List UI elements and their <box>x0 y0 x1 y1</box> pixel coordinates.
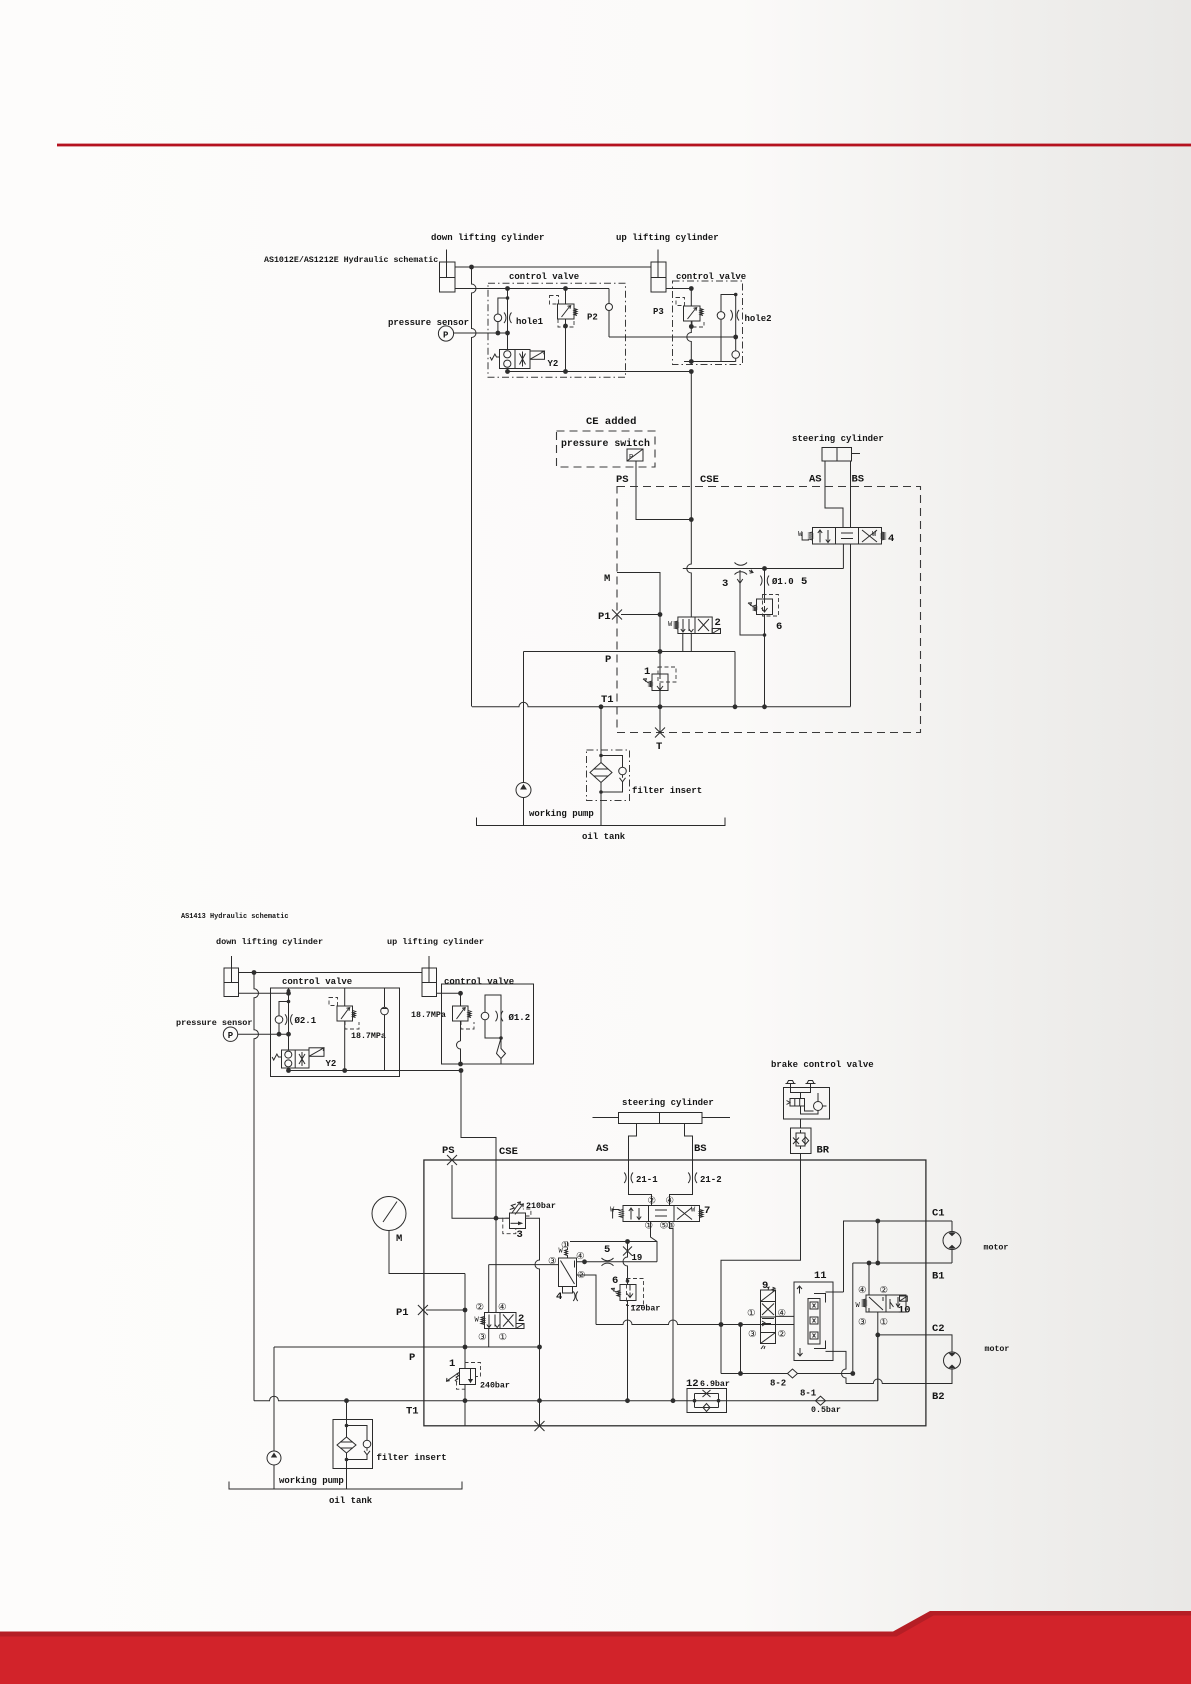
filter insert (dash-dot box) <box>587 707 630 826</box>
svg-text:②: ② <box>880 1285 888 1296</box>
svg-text:working pump: working pump <box>529 809 594 819</box>
svg-text:1: 1 <box>644 666 650 678</box>
wire: C1/B1 link vertical <box>877 1221 879 1263</box>
svg-text:240bar: 240bar <box>480 1381 510 1391</box>
top red rule <box>57 144 1191 147</box>
svg-text:5: 5 <box>604 1244 610 1256</box>
relief valve 1 <box>643 667 676 691</box>
svg-text:filter insert: filter insert <box>377 1453 447 1463</box>
svg-text:5: 5 <box>801 576 807 588</box>
svg-text:PS: PS <box>616 474 629 486</box>
solenoid valve Y2 <box>490 350 544 369</box>
svg-text:CE added: CE added <box>586 416 636 428</box>
port 19 on valve6 riser <box>623 1242 632 1282</box>
wire: P2 bottom drain <box>565 319 567 372</box>
svg-text:①: ① <box>561 1240 569 1251</box>
svg-text:4: 4 <box>556 1291 562 1303</box>
svg-text:①: ① <box>499 1332 507 1343</box>
svg-text:③: ③ <box>478 1332 486 1343</box>
wire: cyl2 bottom port into control valve 2 <box>666 288 691 290</box>
svg-text:brake control valve: brake control valve <box>771 1060 874 1070</box>
svg-text:Ø1.0: Ø1.0 <box>772 577 794 587</box>
orifice Ø1.0 (vertical seat) <box>760 569 769 600</box>
port P1 (X on left edge) <box>418 1305 428 1315</box>
relief valve 1 (240bar) <box>447 1363 481 1390</box>
svg-text:M: M <box>396 1233 402 1245</box>
wire: CSE drop from CV2 <box>461 1071 496 1313</box>
wire: BS drop <box>685 1124 693 1184</box>
relief valve P2 <box>550 296 578 328</box>
svg-text:hole2: hole2 <box>745 314 772 324</box>
M gauge <box>372 1197 465 1274</box>
svg-text:6: 6 <box>776 621 782 633</box>
wire: cyl1 bottom port <box>239 992 289 994</box>
wire: valve4 left port down to crossover <box>842 544 844 569</box>
svg-text:④: ④ <box>498 1302 506 1313</box>
wire: P line <box>274 1346 540 1348</box>
svg-text:oil tank: oil tank <box>582 832 626 842</box>
svg-text:2: 2 <box>715 617 721 629</box>
svg-text:up lifting cylinder: up lifting cylinder <box>616 233 719 243</box>
svg-text:18.7MPa: 18.7MPa <box>411 1011 446 1020</box>
svg-text:8-1: 8-1 <box>800 1389 817 1399</box>
svg-text:10: 10 <box>898 1305 911 1317</box>
svg-text:21-2: 21-2 <box>700 1175 722 1185</box>
throttle 5 <box>602 1258 614 1266</box>
wire: valve1 to T1 and T port <box>659 691 661 733</box>
svg-text:1: 1 <box>449 1358 455 1370</box>
wire: P1 to valve 1 branch <box>621 614 660 616</box>
wire: CV2 vertical to box bottom <box>457 1021 461 1064</box>
wire: crossover 568.5 from valve2 riser to valve4 <box>683 568 844 570</box>
relief valve (CV2) <box>453 993 475 1029</box>
wire: BR drop to manifold <box>721 1154 801 1374</box>
node on crossover <box>762 566 767 571</box>
control valve 2 dashed enclosure <box>673 281 743 365</box>
wire: M/P1 riser down through valve1 <box>464 1274 466 1427</box>
svg-text:B2: B2 <box>932 1391 945 1403</box>
wire: valve11 riser to C1 <box>844 1221 953 1292</box>
steering cylinder <box>822 448 860 462</box>
wire: T1 line with hop at pump riser <box>254 1396 878 1401</box>
svg-text:pressure sensor: pressure sensor <box>176 1018 253 1028</box>
svg-text:P3: P3 <box>653 307 664 317</box>
solenoid valve 10 <box>856 1295 908 1312</box>
solenoid valve Y2 <box>272 1048 324 1068</box>
svg-text:pressure sensor: pressure sensor <box>388 318 469 328</box>
wire: main left vertical (pressure line to T1) with hops <box>472 267 477 707</box>
wire: sensor vertical with two hops <box>254 973 259 1401</box>
wire: PS drop to valve3 feed <box>452 1165 510 1218</box>
svg-text:AS: AS <box>596 1143 609 1155</box>
svg-text:W: W <box>872 531 877 539</box>
wire: cyl1 top to cyl2 <box>239 972 423 974</box>
wire: BS side through valve 4 <box>850 461 852 528</box>
svg-text:T1: T1 <box>601 694 614 706</box>
wire: internal feed vertical <box>507 289 509 350</box>
wire: T1 right end riser <box>877 1335 879 1401</box>
BR filter block <box>791 1119 812 1154</box>
svg-text:3: 3 <box>722 578 728 590</box>
svg-text:Y2: Y2 <box>548 359 559 369</box>
svg-text:hole1: hole1 <box>516 317 544 327</box>
wire: P leg to pump <box>273 1347 275 1451</box>
svg-text:②: ② <box>476 1302 484 1313</box>
main dashed manifold box <box>617 487 921 733</box>
throttle 3 on crossover <box>735 563 754 575</box>
port P1 (closed X) <box>612 610 622 620</box>
svg-text:BR: BR <box>817 1145 830 1157</box>
svg-text:control valve: control valve <box>509 272 579 282</box>
svg-text:B1: B1 <box>932 1271 945 1283</box>
check valve 8-2 <box>788 1369 798 1378</box>
wire: valve7 right bottom port to T1 <box>670 1222 674 1401</box>
svg-text:Y2: Y2 <box>326 1059 337 1069</box>
svg-text:P1: P1 <box>396 1307 409 1319</box>
svg-text:2: 2 <box>518 1313 524 1325</box>
wire: valve2 bottom ports to P line <box>683 634 692 652</box>
wire: valve block bottom wire to CV2 <box>508 369 692 372</box>
svg-text:W: W <box>610 1207 615 1215</box>
svg-text:P2: P2 <box>587 313 598 323</box>
wire: cyl1 bottom port into control valve <box>455 288 508 290</box>
svg-text:T: T <box>656 741 662 753</box>
svg-text:P: P <box>228 1031 234 1041</box>
bottom red ribbon dark layer <box>0 1611 1191 1684</box>
svg-text:control valve: control valve <box>282 977 352 987</box>
svg-text:up lifting cylinder: up lifting cylinder <box>387 937 484 947</box>
pressure switch dashed box <box>557 431 656 467</box>
working pump <box>516 783 531 826</box>
wire: sensor to valve (hop over sensor vertical) <box>238 1033 289 1035</box>
wire: valve4 right port with 5 throttle <box>577 1261 658 1263</box>
directional valve 2 <box>475 1313 525 1329</box>
cylinder: down lifting cylinder <box>224 956 239 997</box>
svg-text:oil tank: oil tank <box>329 1496 373 1506</box>
wire: main distribution wire y=1324.5 <box>596 1320 794 1325</box>
svg-text:Ø2.1: Ø2.1 <box>295 1016 317 1026</box>
wire: valve6 to T1 with hop <box>627 1301 629 1401</box>
wire: B2 line with hop <box>846 1369 952 1384</box>
port T (closed X) <box>655 728 665 738</box>
port T (X on bottom edge) <box>535 1421 545 1431</box>
svg-text:6.9bar: 6.9bar <box>700 1379 730 1389</box>
wire: valve3 right to P line <box>526 1218 540 1426</box>
svg-text:M: M <box>604 573 610 585</box>
wire: relief bottom drain to Y2 wire <box>344 1021 346 1071</box>
svg-text:AS1413 Hydraulic schematic: AS1413 Hydraulic schematic <box>181 913 289 921</box>
svg-text:④: ④ <box>666 1196 674 1207</box>
svg-text:BS: BS <box>852 474 865 486</box>
valve 12 (6.9bar) <box>687 1389 727 1413</box>
wire: CV1 bottom wire to CSE <box>289 1068 462 1071</box>
port PS (X on top edge) <box>447 1155 457 1165</box>
svg-text:③: ③ <box>748 1329 756 1340</box>
svg-text:motor: motor <box>984 1244 1009 1253</box>
wire: CV1 internal header <box>508 288 610 290</box>
wire: valve4 top to header <box>567 1242 569 1247</box>
wire: M port <box>617 573 660 615</box>
wire: pressure sensor to valve vertical (hop over main line) <box>454 332 508 334</box>
svg-text:120bar: 120bar <box>631 1304 661 1314</box>
motor 2 <box>944 1352 961 1384</box>
svg-text:P: P <box>605 654 611 666</box>
svg-text:②: ② <box>778 1329 786 1340</box>
cylinder: up lifting cylinder <box>422 956 437 997</box>
check valve hole2 <box>684 293 740 362</box>
svg-text:CSE: CSE <box>700 474 719 486</box>
wire: valve4 lower port to main wire <box>577 1275 597 1325</box>
wire: valve4 right port down to T1 <box>850 544 852 707</box>
control valve 2 box <box>442 984 534 1064</box>
svg-text:pressure switch: pressure switch <box>561 438 650 449</box>
svg-text:P1: P1 <box>598 611 611 623</box>
wire: pilot line into valve2 left port <box>489 1264 559 1266</box>
working pump <box>267 1451 281 1489</box>
check valve 8-1 on T1 <box>816 1396 826 1405</box>
pressure sensor P gauge <box>223 1027 237 1041</box>
wire: CV2 feed vertical with hop over crossover <box>687 289 692 365</box>
wire: T1 line with hop over pump riser <box>472 702 851 707</box>
load check (CV1 right) <box>381 988 389 1071</box>
svg-text:C2: C2 <box>932 1323 945 1335</box>
junction node <box>469 265 474 270</box>
svg-text:②: ② <box>648 1196 656 1207</box>
steering cylinder <box>593 1113 731 1124</box>
wire: valve9 right port to valve11 <box>776 1315 795 1317</box>
svg-text:T1: T1 <box>406 1406 419 1418</box>
svg-text:18.7MPa: 18.7MPa <box>351 1032 386 1041</box>
svg-text:210bar: 210bar <box>526 1201 556 1211</box>
wire: P line <box>524 651 736 653</box>
svg-text:filter insert: filter insert <box>632 786 702 796</box>
control valve 1 dashed enclosure <box>488 283 626 377</box>
pressure sensor P gauge <box>438 326 453 341</box>
orifice on CV1 right branch <box>606 289 613 338</box>
directional valve 4 <box>798 528 885 545</box>
wire: valve7 left bottom port to throttle line <box>651 1222 658 1262</box>
svg-text:21-1: 21-1 <box>636 1175 658 1185</box>
wire: cyl2 bottom port <box>437 992 461 994</box>
wire: 740.5 drop to 8-2 <box>740 1325 742 1374</box>
motor 1 <box>943 1221 961 1263</box>
wire: B1 line <box>853 1262 952 1264</box>
check valve hole1 (ball + seat) <box>494 296 511 333</box>
wire: P2 top to header <box>565 289 567 305</box>
svg-text:W: W <box>475 1317 480 1325</box>
wire: AS drop <box>629 1124 637 1184</box>
svg-text:①: ① <box>880 1317 888 1328</box>
wire: pilot header y1241.5 <box>570 1241 657 1243</box>
wire: 8-2 riser at 852.8 <box>852 1263 854 1374</box>
svg-text:CSE: CSE <box>499 1146 518 1158</box>
valve11 bottom exit to B2 <box>826 1351 847 1383</box>
valve 11 assembly <box>794 1282 844 1361</box>
wire: CV1 to CV2 crossover at y=337 <box>609 336 736 338</box>
svg-text:W: W <box>668 621 673 629</box>
svg-text:down lifting cylinder: down lifting cylinder <box>431 233 544 243</box>
svg-text:C1: C1 <box>932 1208 945 1220</box>
svg-text:19: 19 <box>632 1253 643 1263</box>
CV1 internal feed vertical <box>288 988 290 1050</box>
wire: pressure switch to CSE line <box>636 461 691 520</box>
orifice 21-2 <box>670 1173 698 1206</box>
svg-text:P: P <box>629 454 633 462</box>
svg-text:8-2: 8-2 <box>770 1379 786 1389</box>
svg-text:④: ④ <box>858 1285 866 1296</box>
svg-text:control valve: control valve <box>444 977 514 987</box>
svg-text:steering cylinder: steering cylinder <box>622 1098 714 1108</box>
svg-text:working pump: working pump <box>279 1476 344 1486</box>
svg-text:12: 12 <box>686 1378 699 1390</box>
svg-text:P: P <box>409 1352 415 1364</box>
directional valve 7 <box>610 1196 703 1232</box>
brake control valve <box>784 1081 830 1120</box>
svg-text:①: ① <box>747 1308 755 1319</box>
relief valve 3 (210bar) <box>503 1202 531 1234</box>
bottom red ribbon bright layer <box>0 1616 1191 1684</box>
cylinder: down lifting cylinder <box>440 250 456 293</box>
svg-text:③: ③ <box>667 1221 675 1232</box>
cylinder: up lifting cylinder <box>651 250 666 293</box>
svg-text:7: 7 <box>704 1205 710 1217</box>
svg-text:Ø1.2: Ø1.2 <box>509 1013 531 1023</box>
relief valve P3 <box>676 298 704 328</box>
relief valve 6 <box>748 595 779 617</box>
svg-text:6: 6 <box>612 1275 618 1287</box>
solenoid valve 9 <box>761 1287 776 1349</box>
wire: valve1 vertical <box>659 615 661 675</box>
relief valve 6 (120bar) <box>611 1279 644 1306</box>
svg-text:0.5bar: 0.5bar <box>811 1405 841 1415</box>
wire: cyl1 top to cyl2 top <box>455 266 651 268</box>
svg-text:steering cylinder: steering cylinder <box>792 434 884 444</box>
svg-text:down lifting cylinder: down lifting cylinder <box>216 937 323 947</box>
wire: 8-2 line <box>721 1373 853 1375</box>
check valve Ø2.1 <box>275 1000 292 1034</box>
svg-text:3: 3 <box>517 1229 523 1241</box>
wire: P1 to riser <box>426 1309 465 1311</box>
svg-text:11: 11 <box>814 1270 827 1282</box>
svg-text:BS: BS <box>694 1143 707 1155</box>
CSE vertical from CV2 to valve 2 with hop <box>687 372 692 618</box>
wire: valve 6 to T1 <box>764 615 766 707</box>
svg-text:motor: motor <box>985 1345 1010 1354</box>
directional valve 2 <box>668 617 721 634</box>
svg-text:4: 4 <box>888 533 894 545</box>
wire: C2 line <box>878 1335 952 1352</box>
orifice 21-1 <box>624 1173 651 1206</box>
proportional valve 4 <box>559 1248 578 1302</box>
svg-text:①: ① <box>645 1221 653 1232</box>
svg-text:W: W <box>691 1207 696 1215</box>
control valve 1 box <box>271 988 400 1077</box>
oil tank <box>477 818 726 826</box>
svg-text:9: 9 <box>762 1280 768 1292</box>
relief valve 18.7MPa (CV1) <box>329 988 359 1029</box>
svg-text:AS: AS <box>809 474 822 486</box>
wire: P right segment down to T1 <box>734 652 736 707</box>
wire: P line left leg to pump <box>523 652 525 783</box>
svg-text:③: ③ <box>858 1317 866 1328</box>
svg-text:W: W <box>856 1302 861 1310</box>
filter insert box <box>333 1401 373 1489</box>
tap line from throttle 3 <box>737 570 764 635</box>
wire: AS side to valve 4 <box>825 461 843 528</box>
svg-text:P: P <box>443 331 449 341</box>
wire: valve2 bottom left to P <box>488 1329 490 1348</box>
svg-text:④: ④ <box>778 1308 786 1319</box>
wire: valve10 feeds <box>868 1263 870 1295</box>
svg-text:③: ③ <box>548 1256 556 1267</box>
check valve Ø1.2 <box>481 995 505 1064</box>
svg-text:PS: PS <box>442 1145 455 1157</box>
svg-text:AS1012E/AS1212E Hydraulic sche: AS1012E/AS1212E Hydraulic schematic <box>264 255 438 265</box>
oil tank <box>229 1482 462 1490</box>
main valve block box <box>424 1160 926 1426</box>
